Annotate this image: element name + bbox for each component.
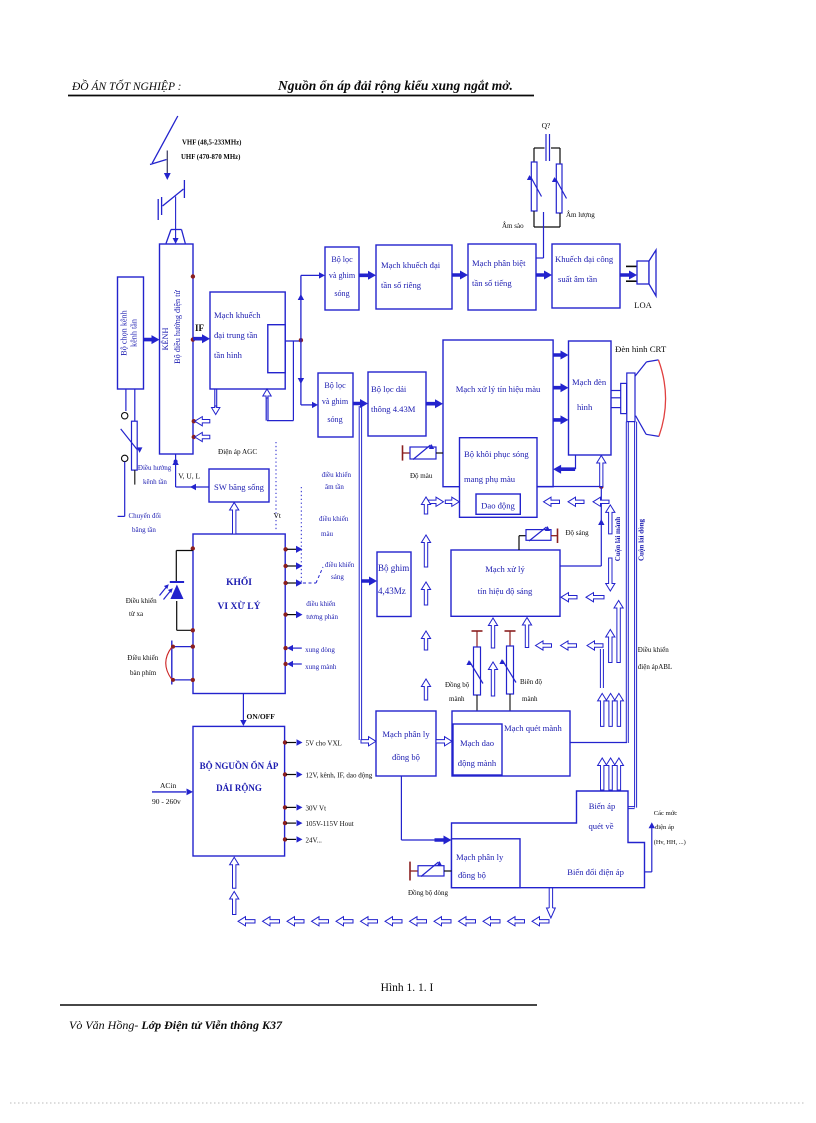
svg-text:âm tần: âm tần (325, 483, 344, 491)
wire from tone circuit to sound discriminator (543, 212, 545, 258)
svg-text:Điều khiển: Điều khiển (127, 654, 158, 662)
svg-text:mành: mành (449, 695, 465, 703)
wire arrow tuner to IF amp (193, 334, 210, 343)
svg-text:sáng: sáng (331, 573, 344, 581)
svg-text:thông 4.43M: thông 4.43M (371, 404, 416, 414)
svg-text:Mạch khuếch: Mạch khuếch (214, 310, 261, 320)
svg-text:mành: mành (522, 695, 538, 703)
svg-text:SW băng sống: SW băng sống (214, 482, 265, 492)
svg-text:Đồng bộ dòng: Đồng bộ dòng (408, 889, 449, 897)
svg-text:V, U, L: V, U, L (178, 472, 200, 481)
svg-text:Bộ khôi phục sóng: Bộ khôi phục sóng (464, 449, 529, 459)
svg-text:động mành: động mành (458, 758, 497, 768)
svg-text:Điều khiển: Điều khiển (126, 597, 157, 605)
block sound filter: Bo loc va ghim song (325, 247, 359, 310)
wire IF output node (285, 340, 301, 342)
block vertical oscillator: Mach dao dong manh (453, 724, 502, 775)
block bandpass filter: Bo loc dai thong 4.43M (368, 372, 426, 436)
potentiometer Dong bo dong (409, 862, 411, 881)
svg-text:Nguồn ổn áp đải rộng kiểu xung: Nguồn ổn áp đải rộng kiểu xung ngắt mở. (277, 78, 513, 93)
dashed hint to dieu khien sang (303, 582, 316, 584)
svg-text:Các mức: Các mức (654, 810, 678, 817)
compound block: Bien ap quet ve + Bien doi dien ap (452, 791, 645, 888)
svg-text:Mạch dao: Mạch dao (460, 738, 494, 748)
svg-text:105V-115V Hout: 105V-115V Hout (306, 820, 354, 828)
svg-text:Độ màu: Độ màu (410, 472, 433, 480)
hollow arrow sync sep to vertical scan (436, 737, 452, 746)
svg-text:Mạch xử lý: Mạch xử lý (485, 564, 525, 574)
block colour processor: Mach xu ly tin hieu mau (443, 340, 553, 487)
svg-text:Đồng bộ: Đồng bộ (445, 681, 470, 689)
svg-text:ĐỒ ÁN TỐT NGHIỆP :: ĐỒ ÁN TỐT NGHIỆP : (71, 78, 181, 93)
junction dots on tuner right edge (191, 274, 195, 278)
hollow arrow into sync separator (361, 737, 376, 746)
vertical deflection rail (cuon lai manh) (625, 422, 627, 743)
arrow to audio power amp (536, 271, 552, 280)
svg-text:điều khiển: điều khiển (322, 471, 352, 479)
VXL control outputs (283, 547, 287, 551)
svg-text:Mạch đèn: Mạch đèn (572, 377, 607, 387)
svg-text:5V cho VXL: 5V cho VXL (306, 740, 342, 748)
svg-text:Biến áp: Biến áp (589, 801, 616, 811)
potentiometer Bien do manh (505, 630, 516, 632)
svg-text:ON/OFF: ON/OFF (247, 712, 276, 721)
block clamp: Bo ghim 4,43Mz (377, 552, 411, 617)
AGC feedback loop wire (292, 341, 294, 421)
svg-text:điện ápABL: điện ápABL (638, 663, 672, 671)
svg-text:24V...: 24V... (306, 836, 323, 844)
wires top of tone circuit (534, 147, 545, 149)
svg-text:Điều khiển: Điều khiển (638, 646, 669, 654)
arrow to sound IF amp (359, 271, 376, 280)
power outputs (283, 740, 287, 744)
svg-text:bàn phím: bàn phím (130, 669, 157, 677)
svg-text:Bộ lọc: Bộ lọc (331, 255, 353, 264)
wire down to video filter (300, 341, 302, 405)
VXL pulse inputs (283, 646, 287, 650)
block CRT driver: Mach den hinh (569, 341, 612, 455)
hollow down arrow from bien doi dien ap (548, 888, 550, 908)
svg-text:và ghim: và ghim (329, 271, 356, 280)
svg-text:Khuếch đại công: Khuếch đại công (555, 254, 614, 264)
svg-text:điều khiển: điều khiển (306, 600, 336, 608)
block sound IF amplifier: Mach khuech dai tan so rieng (376, 245, 452, 309)
svg-text:mang phụ màu: mang phụ màu (464, 474, 516, 484)
ON/OFF wire (242, 694, 244, 721)
svg-text:Bộ điều hưởng điện tử: Bộ điều hưởng điện tử (173, 290, 182, 364)
block sync separator 2: Mach phan ly dong bo (452, 839, 521, 888)
wire vertical scan to rail (570, 742, 627, 744)
svg-text:kênh tần: kênh tần (130, 319, 139, 347)
header underline (68, 95, 534, 97)
svg-text:quét về: quét về (588, 821, 613, 831)
svg-text:đại trung tần: đại trung tần (214, 330, 258, 340)
svg-text:suất âm tần: suất âm tần (558, 274, 598, 284)
hollow left arrow chain (238, 917, 255, 926)
arrow to bandpass filter (353, 399, 368, 408)
block FM discriminator: Mach phan biet tan so tieng (468, 244, 536, 310)
svg-text:KÊNH: KÊNH (160, 328, 170, 351)
svg-text:IF: IF (195, 323, 205, 333)
svg-text:Hình 1. 1. I: Hình 1. 1. I (381, 982, 434, 994)
arrow to discriminator (452, 271, 468, 280)
svg-text:Cuộn lái mành: Cuộn lái mành (614, 517, 622, 561)
svg-text:4,43Mz: 4,43Mz (378, 586, 406, 596)
CRT funnel (635, 362, 647, 376)
keyboard lines (171, 641, 173, 685)
svg-text:BỘ NGUỒN ỔN ÁP: BỘ NGUỒN ỔN ÁP (200, 761, 279, 771)
svg-text:điều khiển: điều khiển (325, 561, 355, 569)
svg-text:băng tần: băng tần (132, 526, 156, 534)
dotted line Vt (275, 442, 277, 530)
block sync separator: Mach phan ly dong bo (376, 711, 436, 776)
capacitor Q? (545, 134, 547, 161)
svg-text:ACin: ACin (160, 781, 177, 790)
svg-text:điều khiển: điều khiển (319, 515, 349, 523)
arrow to colour processor (426, 399, 443, 408)
antenna funnel into tuner (171, 229, 182, 231)
hollow arrow chain x=493 (488, 618, 497, 648)
svg-text:Mạch khuếch đại: Mạch khuếch đại (381, 260, 441, 270)
remote control photodiode (191, 546, 195, 550)
CRT pins (611, 390, 621, 392)
video feed line down from bandpass arrow (358, 406, 360, 740)
potentiometer Do sang (518, 536, 520, 550)
svg-text:VI XỪ LÝ: VI XỪ LÝ (218, 600, 261, 612)
svg-text:màu: màu (321, 530, 334, 538)
svg-text:Âm lượng: Âm lượng (566, 211, 595, 219)
arrow to speaker (620, 271, 637, 280)
HV output wire (645, 871, 652, 873)
block brightness processor: Mach xu ly tin hieu do sang (451, 550, 560, 616)
svg-text:Mạch phân ly: Mạch phân ly (456, 852, 504, 862)
bottom wires of tone circuit (533, 211, 535, 227)
hollow down arrow x610 (606, 558, 615, 591)
block vertical scan: Mach quet manh (452, 711, 570, 776)
triple hollow up arrows above quet manh wire (598, 693, 607, 726)
svg-text:Đèn hình CRT: Đèn hình CRT (615, 344, 667, 354)
IF amp inner output rect (268, 325, 285, 373)
hollow arrow row y=597 (561, 593, 577, 602)
svg-text:kênh tần: kênh tần (143, 478, 167, 486)
switch blade (121, 429, 138, 450)
wire down to band change (124, 462, 126, 517)
svg-text:Mạch phân biệt: Mạch phân biệt (472, 258, 526, 268)
svg-text:Biến đổi điện áp: Biến đổi điện áp (567, 867, 624, 877)
AGC hollow down arrow from IF amp (214, 389, 216, 407)
hollow up arrow chain to oscillator (421, 497, 430, 514)
svg-text:12V, kênh, IF, dao động: 12V, kênh, IF, dao động (306, 772, 373, 780)
svg-text:Bộ ghim: Bộ ghim (378, 563, 409, 573)
block channel selector: Bo chon kenh / kenh tan (118, 277, 144, 389)
block video filter: Bo loc va ghim song (318, 373, 353, 437)
svg-text:và ghim: và ghim (322, 397, 349, 406)
svg-text:tương phản: tương phản (306, 613, 338, 621)
tuning pot vertical (132, 421, 138, 470)
potentiometer Am luong (556, 164, 562, 213)
hollow arrow up into CRT driver (597, 456, 606, 487)
wire up to sound filter (300, 275, 302, 341)
svg-text:UHF (470-870 MHz): UHF (470-870 MHz) (181, 154, 240, 161)
svg-text:VHF (48,5-233MHz): VHF (48,5-233MHz) (182, 140, 241, 147)
svg-text:hình: hình (577, 402, 593, 412)
wire CRT driver feedback to colour proc (575, 455, 577, 469)
triple hollow up arrows above bien ap quet ve (598, 758, 607, 790)
svg-text:đồng bộ: đồng bộ (458, 870, 486, 880)
svg-text:Bộ lọc: Bộ lọc (324, 381, 346, 390)
svg-text:sóng: sóng (334, 289, 349, 298)
svg-text:Chuyển đổi: Chuyển đổi (129, 512, 162, 520)
svg-text:LOA: LOA (634, 300, 652, 310)
svg-text:30V Vt: 30V Vt (306, 804, 327, 812)
block audio power amplifier: Khuech dai cong suat am tan (552, 244, 620, 308)
svg-text:tần số tiếng: tần số tiếng (472, 278, 512, 288)
CRT neck (627, 373, 635, 422)
svg-text:90 - 260v: 90 - 260v (152, 797, 181, 806)
wire sync1 to sync2 (400, 776, 402, 840)
svg-text:tần hình: tần hình (214, 350, 243, 360)
svg-text:Mạch xử lý tín hiệu màu: Mạch xử lý tín hiệu màu (456, 384, 541, 394)
svg-text:Mạch phân ly: Mạch phân ly (382, 729, 430, 739)
block IF amplifier: Mach khuech dai trung tan tan hinh (210, 292, 285, 389)
potentiometer Do mau (402, 445, 404, 460)
svg-text:Bộ lọc dải: Bộ lọc dải (371, 384, 407, 394)
hollow up arrows into power supply (230, 857, 239, 888)
svg-text:Biên độ: Biên độ (520, 678, 542, 686)
hollow arrow row to oscillator y=502 (544, 497, 560, 506)
svg-text:Vò Văn Hồng- Lớp Điện tử Viễn: Vò Văn Hồng- Lớp Điện tử Viễn thông K37 (69, 1018, 283, 1032)
svg-text:đồng bộ: đồng bộ (392, 752, 420, 762)
wire arrow channel selector to tuner (144, 335, 160, 344)
hollow arrow chain x=527 (522, 618, 531, 648)
svg-text:Vt: Vt (274, 511, 282, 520)
potentiometer Am sac (531, 162, 537, 211)
block oscillator: Dao dong (476, 494, 520, 514)
block subcarrier restorer: Bo khoi phuc song mang phu mau (460, 438, 538, 518)
three arrows colour processor to CRT driver (553, 351, 569, 360)
footer rule (60, 1004, 537, 1006)
svg-text:Âm sào: Âm sào (502, 222, 524, 230)
hollow up arrow x610 (606, 505, 615, 534)
hollow arrow VXL to SW bang song (230, 503, 239, 535)
hollow arrow row y=645 (536, 641, 552, 650)
svg-text:Cuộn lái dòng: Cuộn lái dòng (638, 518, 646, 561)
AGC hollow arrows into tuner (192, 419, 196, 423)
selector switch wires (125, 389, 127, 411)
svg-text:tín hiệu độ sáng: tín hiệu độ sáng (478, 586, 533, 596)
svg-text:Bộ chọn kênh: Bộ chọn kênh (120, 310, 129, 355)
dipole antenna (183, 180, 185, 198)
keyboard red brace (166, 648, 172, 680)
block electronic tuner: KENH / Bo dieu huong dien tu (160, 244, 194, 454)
svg-text:Q?: Q? (542, 121, 551, 130)
svg-text:Độ sáng: Độ sáng (566, 529, 590, 537)
svg-text:từ xa: từ xa (129, 610, 144, 618)
svg-text:DẢI RỘNG: DẢI RỘNG (216, 783, 262, 793)
wire brightness proc right (560, 565, 601, 567)
dotted line control bus (300, 487, 302, 584)
horizontal deflection rail (cuon lai dong) (634, 422, 636, 808)
speaker LOA (626, 265, 637, 267)
hollow arrows into subcarrier left (429, 497, 444, 506)
potentiometer Dong bo manh (472, 630, 483, 632)
svg-text:Điều hưởng: Điều hưởng (138, 464, 172, 472)
arrow into Bo ghim (361, 577, 377, 586)
svg-text:tần số riêng: tần số riêng (381, 280, 422, 290)
svg-text:(Hv, HH, ...): (Hv, HH, ...) (654, 839, 686, 846)
CRT electron gun (621, 383, 627, 413)
svg-text:điện áp: điện áp (655, 824, 675, 831)
wire subcarrier block to rail node (537, 486, 601, 488)
block band switch: SW bang song (209, 469, 269, 502)
power supply block: BO NGUON ON AP DAI RONG (193, 726, 285, 856)
remote IR strokes (160, 586, 168, 595)
svg-text:sóng: sóng (327, 415, 342, 424)
svg-text:Mạch quét mành: Mạch quét mành (504, 723, 562, 733)
svg-text:xung mành: xung mành (305, 663, 337, 671)
hollow up arrows mid right (606, 630, 615, 663)
svg-text:Dao động: Dao động (481, 501, 515, 511)
wire node down (600, 487, 602, 566)
antenna signal arrow (152, 116, 178, 163)
bottom dotted line (10, 1102, 806, 1104)
svg-text:Điện áp AGC: Điện áp AGC (218, 448, 257, 456)
microprocessor block: KHOI VI XU LY (193, 534, 285, 694)
svg-text:xung dòng: xung dòng (305, 646, 335, 654)
CRT screen red arc (658, 360, 665, 437)
